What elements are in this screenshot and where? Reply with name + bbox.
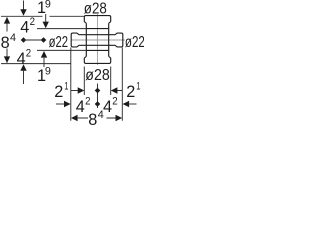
left socket bead-to-wall steps bbox=[77, 33, 79, 47]
arrow left (8-4 bottom left end) bbox=[71, 115, 78, 121]
arrow up (8-4 top) bbox=[4, 17, 10, 24]
arrow down (8-4 bottom) bbox=[4, 56, 10, 63]
arrow right (4-2 bottom left, outside) bbox=[64, 101, 71, 107]
arrow up (4-2 lower, outside below line y=63.4) bbox=[20, 64, 26, 71]
body side walls bbox=[86, 29, 108, 51]
svg-text:4: 4 bbox=[10, 32, 16, 44]
diamond terminator on centerline (4-2 dims) bbox=[21, 37, 27, 43]
dimension 2-1 left stem bbox=[71, 90, 78, 92]
diamond terminator row 90.5 bbox=[95, 88, 101, 94]
bottom socket bead-to-wall steps bbox=[84, 56, 110, 58]
bottom socket bead (ø28) bbox=[84, 58, 110, 64]
dimension 1-9 top stem bbox=[45, 14, 47, 23]
centerline horizontal of cross fitting bbox=[72, 39, 125, 41]
diamond terminator ø22 callout bbox=[41, 37, 47, 43]
svg-text:ø22: ø22 bbox=[125, 34, 144, 51]
dimension 2-1 right stem bbox=[117, 90, 122, 92]
dimension 8-4 bottom stems bbox=[78, 117, 116, 119]
arrow left (2-1 right) bbox=[111, 87, 118, 93]
diameter callout line with diamonds (ø22 left) bbox=[24, 39, 44, 41]
arrow up (1-9 bottom) bbox=[41, 51, 47, 58]
svg-text:2: 2 bbox=[54, 83, 63, 101]
extension line vertical (bead right x=110.7) bbox=[110, 67, 112, 96]
left socket bead (ø22) bbox=[71, 33, 77, 47]
left socket walls bbox=[79, 35, 116, 46]
extension line bottom (bead bottom level y=63.4) bbox=[1, 63, 71, 65]
svg-text:ø22: ø22 bbox=[49, 34, 69, 51]
extension line vertical (bead left x=84.3) bbox=[83, 67, 85, 96]
top socket walls bbox=[86, 23, 108, 28]
centerline extension bottom with diamonds bbox=[97, 84, 99, 109]
svg-text:2: 2 bbox=[30, 16, 35, 28]
arrow down (1-9 top) bbox=[43, 22, 49, 29]
dimension 8-4 vertical line x=7 bbox=[6, 17, 8, 63]
dimension 4-2 upper: stem above bbox=[23, 1, 25, 11]
svg-text:8: 8 bbox=[1, 34, 10, 52]
svg-text:1: 1 bbox=[136, 81, 140, 93]
svg-text:9: 9 bbox=[45, 0, 51, 10]
svg-text:2: 2 bbox=[112, 96, 117, 108]
arrow left (4-2 bottom right, outside) bbox=[123, 101, 130, 107]
arrow down (4-2 upper, outside above line y=16) bbox=[20, 9, 26, 16]
dimension 1-9 bottom stem bbox=[43, 58, 45, 67]
bottom socket walls bbox=[86, 50, 108, 56]
svg-text:4: 4 bbox=[17, 50, 26, 68]
svg-text:ø28: ø28 bbox=[85, 67, 110, 84]
body top edge bbox=[86, 28, 108, 30]
extension line vertical left (x=70.8) bbox=[70, 48, 72, 121]
svg-text:4: 4 bbox=[103, 98, 112, 116]
svg-text:4: 4 bbox=[98, 109, 104, 121]
svg-text:ø28: ø28 bbox=[84, 1, 107, 18]
svg-text:4: 4 bbox=[76, 98, 85, 116]
stem below (4-2 lower) bbox=[23, 71, 25, 84]
svg-text:1: 1 bbox=[64, 81, 68, 93]
svg-text:9: 9 bbox=[45, 66, 51, 78]
arrow right (2-1 left) bbox=[78, 87, 85, 93]
right socket bead (ø22) bbox=[117, 33, 123, 47]
extension line top (socket opening level y=16) bbox=[1, 15, 84, 17]
diamond terminator row 104 bbox=[95, 101, 101, 107]
svg-text:8: 8 bbox=[88, 111, 97, 129]
extension line vertical right (x=122.3) bbox=[121, 48, 123, 121]
svg-text:2: 2 bbox=[85, 96, 90, 108]
top socket bead-to-wall steps bbox=[84, 22, 110, 24]
outside stem right (4-2 bottom) bbox=[129, 103, 136, 105]
right socket bead-to-wall steps bbox=[115, 33, 117, 47]
svg-text:2: 2 bbox=[126, 83, 135, 101]
dimension 4-2 bottom row: outside stem left bbox=[56, 103, 64, 105]
extension line insertion depth top (y=28.6) bbox=[37, 28, 86, 30]
top socket bead (ø28) bbox=[84, 16, 110, 22]
body bottom edge bbox=[86, 49, 108, 51]
svg-text:4: 4 bbox=[20, 19, 29, 37]
arrow right (8-4 bottom right end) bbox=[116, 115, 123, 121]
svg-text:2: 2 bbox=[26, 48, 31, 60]
background bbox=[0, 0, 144, 132]
extension line body bottom (y=50.4) bbox=[37, 49, 86, 51]
centerline vertical of cross fitting bbox=[97, 14, 99, 65]
